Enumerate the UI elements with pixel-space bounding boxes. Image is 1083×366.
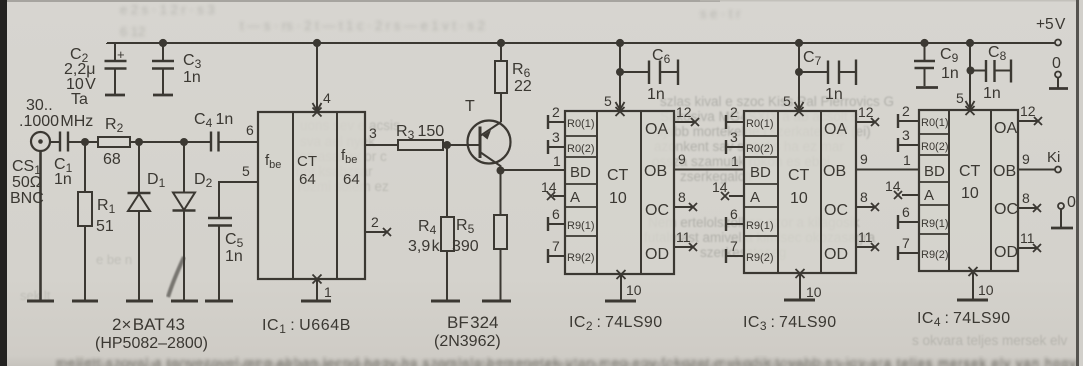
wire rail corner to C2 (106, 43, 108, 44)
wire R2 to node B (130, 141, 211, 143)
IC4 pin 3 stub (898, 144, 919, 146)
IC2 pin 5 from rail (616, 39, 624, 47)
wire rail to IC1 pin 4 (316, 43, 318, 111)
node A junction dot (81, 138, 89, 146)
IC3 pin 14 stub with X (729, 195, 744, 197)
svg-text:BF 324: BF 324 (447, 313, 499, 332)
svg-text:5: 5 (956, 90, 964, 106)
svg-text:12: 12 (858, 104, 874, 120)
ground 0V top (1049, 87, 1068, 90)
svg-text:2× BAT 43: 2× BAT 43 (112, 315, 185, 334)
wire base node down to R4 (446, 145, 448, 217)
svg-text:BD: BD (570, 164, 591, 181)
diode D2 (cathode down) (173, 193, 195, 211)
svg-text:R0(1): R0(1) (567, 118, 595, 130)
IC3 74LS90 box (744, 111, 856, 273)
svg-text:12: 12 (676, 104, 692, 120)
node R6 junction dot on rail (497, 39, 505, 47)
wire IC1 pin 1 to ground (316, 279, 318, 300)
svg-text:5: 5 (783, 93, 791, 109)
left scan border (0, 0, 7, 366)
svg-text:1n: 1n (941, 65, 959, 82)
IC1 U664B box (258, 112, 365, 279)
svg-text:C4 1n: C4 1n (194, 111, 233, 130)
svg-text:OD: OD (645, 246, 669, 263)
faint text mid-left behind IC1 (296, 118, 400, 194)
transistor collector (480, 152, 501, 171)
pin 1 exit X (313, 275, 322, 284)
IC4 pin 12 stub with X (1018, 120, 1037, 122)
svg-text:CT: CT (607, 167, 629, 184)
svg-text:R9(2): R9(2) (746, 252, 774, 264)
svg-text:R9(2): R9(2) (567, 252, 595, 264)
svg-text:0: 0 (1052, 55, 1061, 72)
node pin4 junction dot on rail (313, 39, 321, 47)
svg-text:8: 8 (678, 189, 686, 205)
IC2 pin 11 stub with X (674, 246, 692, 248)
svg-text:8: 8 (1022, 190, 1030, 206)
IC2 pin 9 OB to IC3 pin 1 BD (674, 169, 744, 171)
IC2 pin 7 stub (548, 255, 565, 257)
svg-text:IC3 : 74LS90: IC3 : 74LS90 (743, 314, 837, 333)
capacitor C3 top lead (162, 43, 164, 60)
IC2 pin 6 stub (548, 223, 565, 225)
svg-text:2: 2 (902, 103, 910, 119)
IC4 pin 5 from rail via C8 node (966, 39, 974, 47)
capacitor C3 (152, 61, 174, 69)
svg-text:Ta: Ta (71, 91, 88, 108)
IC3 pin 3 stub (726, 146, 744, 148)
svg-text:3: 3 (730, 129, 738, 145)
svg-text:6: 6 (902, 204, 910, 220)
ground IC2 pin10 (605, 300, 636, 303)
wire BNC shield down (39, 151, 42, 301)
svg-text:OC: OC (994, 201, 1018, 218)
pin 2 X (383, 228, 391, 236)
svg-text:t — s · rs · 2 t — t 1 c · 2 r: t — s · rs · 2 t — t 1 c · 2 r s — e 1 v… (240, 18, 485, 33)
wire emitter to R6 (500, 93, 502, 122)
svg-text:OA: OA (645, 121, 668, 138)
wire D2 to ground (183, 211, 185, 300)
svg-text:10: 10 (790, 190, 808, 207)
svg-text:R9(2): R9(2) (921, 249, 949, 261)
svg-text:(2N3962): (2N3962) (434, 333, 501, 350)
pin 4 entry X (313, 108, 322, 117)
IC4 pin 7 stub (898, 252, 919, 254)
wire BNC to C1 (50, 141, 59, 143)
IC2 pin 2 stub (548, 121, 565, 123)
node C3 junction dot on rail (159, 39, 167, 47)
svg-text:OB: OB (644, 163, 667, 180)
capacitor C5 (208, 218, 232, 226)
IC2 pin 14 stub with X (553, 195, 565, 197)
ground C3 (153, 94, 173, 97)
ground IC4 pin10 (957, 299, 988, 302)
wire +5V top rail (107, 42, 1055, 44)
IC3 pin 9 OB to IC4 pin 1 BD (856, 169, 919, 171)
svg-text:2: 2 (730, 104, 738, 120)
capacitor C7 (799, 71, 827, 73)
svg-text:(HP5082–2800): (HP5082–2800) (95, 335, 208, 352)
svg-text:9: 9 (860, 151, 868, 167)
svg-text:11: 11 (858, 229, 873, 245)
wire R4 to ground (446, 251, 448, 300)
svg-text:12: 12 (1020, 103, 1036, 119)
svg-text:R0(1): R0(1) (746, 118, 774, 130)
IC3 pin 7 stub (726, 255, 744, 257)
terminal +5V open circle (1055, 40, 1061, 46)
ground BNC (27, 300, 54, 303)
ground 0V mid (1051, 227, 1073, 230)
svg-text:4: 4 (323, 90, 331, 106)
svg-text:3,9 k: 3,9 k (408, 238, 441, 255)
svg-text:1: 1 (324, 284, 332, 300)
svg-text:10: 10 (609, 190, 627, 207)
ground C5 (205, 300, 233, 303)
svg-text:+5 V: +5 V (1036, 16, 1066, 33)
svg-text:51: 51 (96, 218, 114, 235)
wire C1 to node A (68, 141, 98, 143)
right scan border (1076, 0, 1079, 366)
svg-text:BD: BD (750, 164, 771, 181)
svg-text:BNC: BNC (10, 190, 44, 207)
ground IC3 pin10 (784, 299, 815, 302)
IC4 pin 8 stub with X (1018, 207, 1036, 209)
bottom blurred text band (56, 355, 1077, 366)
svg-text:OD: OD (994, 244, 1018, 261)
svg-text:1n: 1n (983, 85, 1001, 102)
svg-text:IC4 : 74LS90: IC4 : 74LS90 (917, 310, 1011, 329)
svg-text:OD: OD (824, 246, 848, 263)
svg-text:1: 1 (731, 153, 739, 169)
IC3 pin 6 stub (726, 223, 744, 225)
IC4 pin 6 stub (898, 221, 919, 223)
IC3 pin 2 stub (726, 121, 744, 123)
IC4 pin 11 stub with X (1018, 247, 1036, 249)
svg-text:R9(1): R9(1) (746, 220, 774, 232)
svg-text:9: 9 (678, 151, 686, 167)
svg-text:OC: OC (645, 202, 669, 219)
svg-text:OA: OA (994, 120, 1017, 137)
wire D1 to ground (138, 211, 140, 300)
top scan edge line (0, 0, 720, 2)
svg-text:A: A (924, 187, 934, 204)
wire collector to IC2 pin 1 BD (501, 169, 566, 171)
svg-text:9: 9 (1022, 151, 1030, 167)
svg-text:R9(1): R9(1) (567, 220, 595, 232)
svg-text:30..: 30.. (26, 97, 53, 114)
IC3 pin 10 to ground (799, 273, 801, 299)
resistor R3 (398, 140, 443, 150)
svg-text:Ki: Ki (1047, 149, 1060, 166)
terminal 0V top right (1055, 72, 1061, 78)
svg-text:1n: 1n (54, 171, 72, 188)
node collector junction dot (497, 167, 505, 175)
wire R5 to ground (500, 249, 502, 300)
svg-text:8: 8 (860, 189, 868, 205)
svg-text:3: 3 (552, 129, 560, 145)
ground C9 (916, 86, 938, 89)
svg-text:OB: OB (823, 163, 846, 180)
node B junction dot (135, 138, 143, 146)
capacitor C2 top lead (114, 43, 116, 60)
svg-text:10: 10 (806, 284, 822, 300)
svg-text:1: 1 (553, 153, 561, 169)
transistor T BF324 (468, 121, 511, 164)
IC2 pin 12 stub with X (674, 121, 694, 123)
ground R5 (482, 300, 511, 303)
svg-text:IC1 : U664B: IC1 : U664B (262, 317, 351, 336)
capacitor C8 (971, 70, 986, 72)
node C junction dot (180, 138, 188, 146)
ink smudge (168, 257, 184, 297)
svg-text:A: A (750, 189, 760, 206)
ground R1 (72, 300, 98, 303)
svg-text:CT: CT (959, 163, 981, 180)
svg-text:5: 5 (604, 93, 612, 109)
resistor R2 (98, 137, 130, 147)
svg-text:1n: 1n (647, 86, 665, 103)
IC4 74LS90 box (919, 110, 1018, 271)
ground R4 (431, 300, 460, 303)
faint text right column (644, 94, 1068, 348)
terminal Ki open circle (1055, 167, 1061, 173)
svg-text:R0(2): R0(2) (567, 143, 595, 155)
node C7 junction dot (795, 68, 803, 76)
wire IC1 pin 2 stub (365, 231, 386, 233)
node C6 junction dot (616, 68, 624, 76)
wire C5 to ground (218, 226, 220, 301)
svg-text:50Ω: 50Ω (12, 174, 42, 191)
svg-text:ameddig szoval sa tenyezovel m: ameddig szoval sa tenyezovel meg abban l… (56, 357, 1077, 366)
svg-text:10: 10 (626, 282, 642, 298)
svg-text:3: 3 (369, 125, 377, 141)
svg-text:R9(1): R9(1) (921, 218, 949, 230)
faint reverse-side text top band (120, 2, 741, 39)
node C9 junction dot on rail (920, 39, 928, 47)
ground D1 (126, 300, 153, 303)
svg-text:6: 6 (246, 122, 254, 138)
wire R1 to ground (84, 226, 86, 300)
ground IC1 pin1 (301, 300, 331, 303)
IC4 pin 2 stub (898, 120, 919, 122)
svg-text:IC2 : 74LS90: IC2 : 74LS90 (569, 314, 663, 333)
faint text lower-left (20, 252, 132, 303)
resistor R6 (495, 61, 507, 93)
IC2 pin 8 stub with X (674, 206, 692, 208)
svg-text:11: 11 (1020, 230, 1035, 246)
diode D1 (cathode up) (128, 192, 151, 195)
svg-text:14: 14 (541, 179, 557, 195)
IC3 pin 12 stub with X (856, 121, 874, 123)
IC4 pin 14 stub with X (902, 194, 919, 196)
svg-text:OB: OB (993, 163, 1016, 180)
svg-text:OA: OA (824, 121, 847, 138)
svg-text:14: 14 (885, 178, 901, 194)
wire collector down to R5 (500, 171, 502, 216)
capacitor C9 (924, 43, 926, 60)
svg-text:5: 5 (242, 163, 250, 179)
node C8 junction dot (967, 67, 975, 75)
wire IC1 pin 3 to R3 (365, 144, 398, 146)
svg-text:A: A (570, 189, 580, 206)
wire C2 to its ground (114, 69, 116, 95)
svg-text:64: 64 (343, 171, 360, 188)
svg-text:68: 68 (103, 151, 121, 168)
svg-text:7: 7 (902, 235, 910, 251)
wire R3 to transistor base (443, 144, 479, 146)
wire R6 to rail (500, 43, 502, 61)
IC2 74LS90 box (565, 111, 674, 274)
svg-text:1n: 1n (825, 86, 843, 103)
svg-text:390: 390 (452, 238, 479, 255)
svg-text:BD: BD (924, 163, 945, 180)
wire IC1 pin 5 to C5 corner (219, 182, 258, 217)
IC3 pin 8 stub with X (856, 206, 874, 208)
ground C2 (105, 94, 125, 97)
BNC connector CS1 (31, 132, 50, 151)
transistor emitter with arrow (480, 122, 501, 136)
svg-text:CT: CT (788, 167, 810, 184)
IC2 pin 10 to ground (620, 274, 622, 300)
svg-text:R3 150: R3 150 (396, 123, 444, 142)
svg-text:6 12: 6 12 (120, 24, 145, 39)
capacitor C6 (620, 71, 648, 73)
IC2 pin 3 stub (548, 146, 565, 148)
svg-text:e be n: e be n (96, 252, 132, 267)
svg-text:7: 7 (552, 238, 560, 254)
wire node C down to D2 (183, 142, 185, 192)
svg-text:s e · t r: s e · t r (700, 6, 741, 21)
capacitor C2 electrolytic (105, 61, 127, 69)
wire C4 to IC1 pin 6 (219, 141, 259, 143)
wire C3 to its ground (162, 69, 164, 95)
svg-text:T: T (465, 98, 475, 115)
wire node B down to D1 (138, 142, 140, 192)
svg-text:1n: 1n (225, 248, 243, 265)
svg-text:2: 2 (371, 214, 379, 230)
svg-text:s okvara teljes mersek elv: s okvara teljes mersek elv (912, 333, 1068, 348)
pin entry arrowheads (313, 103, 322, 111)
resistor R5 (494, 215, 507, 249)
node base junction dot (443, 141, 451, 149)
svg-text:1: 1 (903, 152, 911, 168)
svg-text:R0(2): R0(2) (746, 143, 774, 155)
IC4 pin 10 to ground (972, 271, 974, 299)
svg-text:R0(1): R0(1) (921, 117, 949, 129)
svg-text:2: 2 (552, 104, 560, 120)
svg-text:11: 11 (676, 229, 691, 245)
resistor R4 (441, 217, 454, 251)
terminal 0V mid right (1058, 203, 1064, 209)
IC3 pin 5 from rail (795, 39, 803, 47)
svg-text:22: 22 (514, 78, 532, 95)
svg-text:64: 64 (299, 171, 316, 188)
svg-text:+: + (117, 47, 125, 62)
svg-text:10: 10 (978, 282, 994, 298)
svg-text:6: 6 (552, 206, 560, 222)
resistor R1 (78, 192, 92, 226)
IC4 pin 9 OB to Ki terminal (1018, 169, 1055, 171)
svg-text:14: 14 (712, 179, 728, 195)
svg-text:6: 6 (730, 206, 738, 222)
svg-text:1n: 1n (183, 69, 201, 86)
svg-text:0: 0 (1067, 194, 1076, 211)
svg-text:.1000 MHz: .1000 MHz (19, 113, 93, 130)
svg-text:R0(2): R0(2) (921, 141, 949, 153)
svg-text:OC: OC (824, 202, 848, 219)
svg-text:3: 3 (902, 127, 910, 143)
capacitor C1 (60, 132, 68, 152)
IC3 pin 11 stub with X (856, 246, 874, 248)
wire node A down to R1 (84, 142, 86, 192)
svg-text:e 2 s · 1 2 r · s 3: e 2 s · 1 2 r · s 3 (120, 2, 215, 17)
capacitor C4 (211, 132, 219, 152)
svg-text:10: 10 (961, 185, 979, 202)
svg-text:CT: CT (297, 153, 317, 170)
svg-text:7: 7 (730, 238, 738, 254)
ground D2 (171, 300, 198, 303)
